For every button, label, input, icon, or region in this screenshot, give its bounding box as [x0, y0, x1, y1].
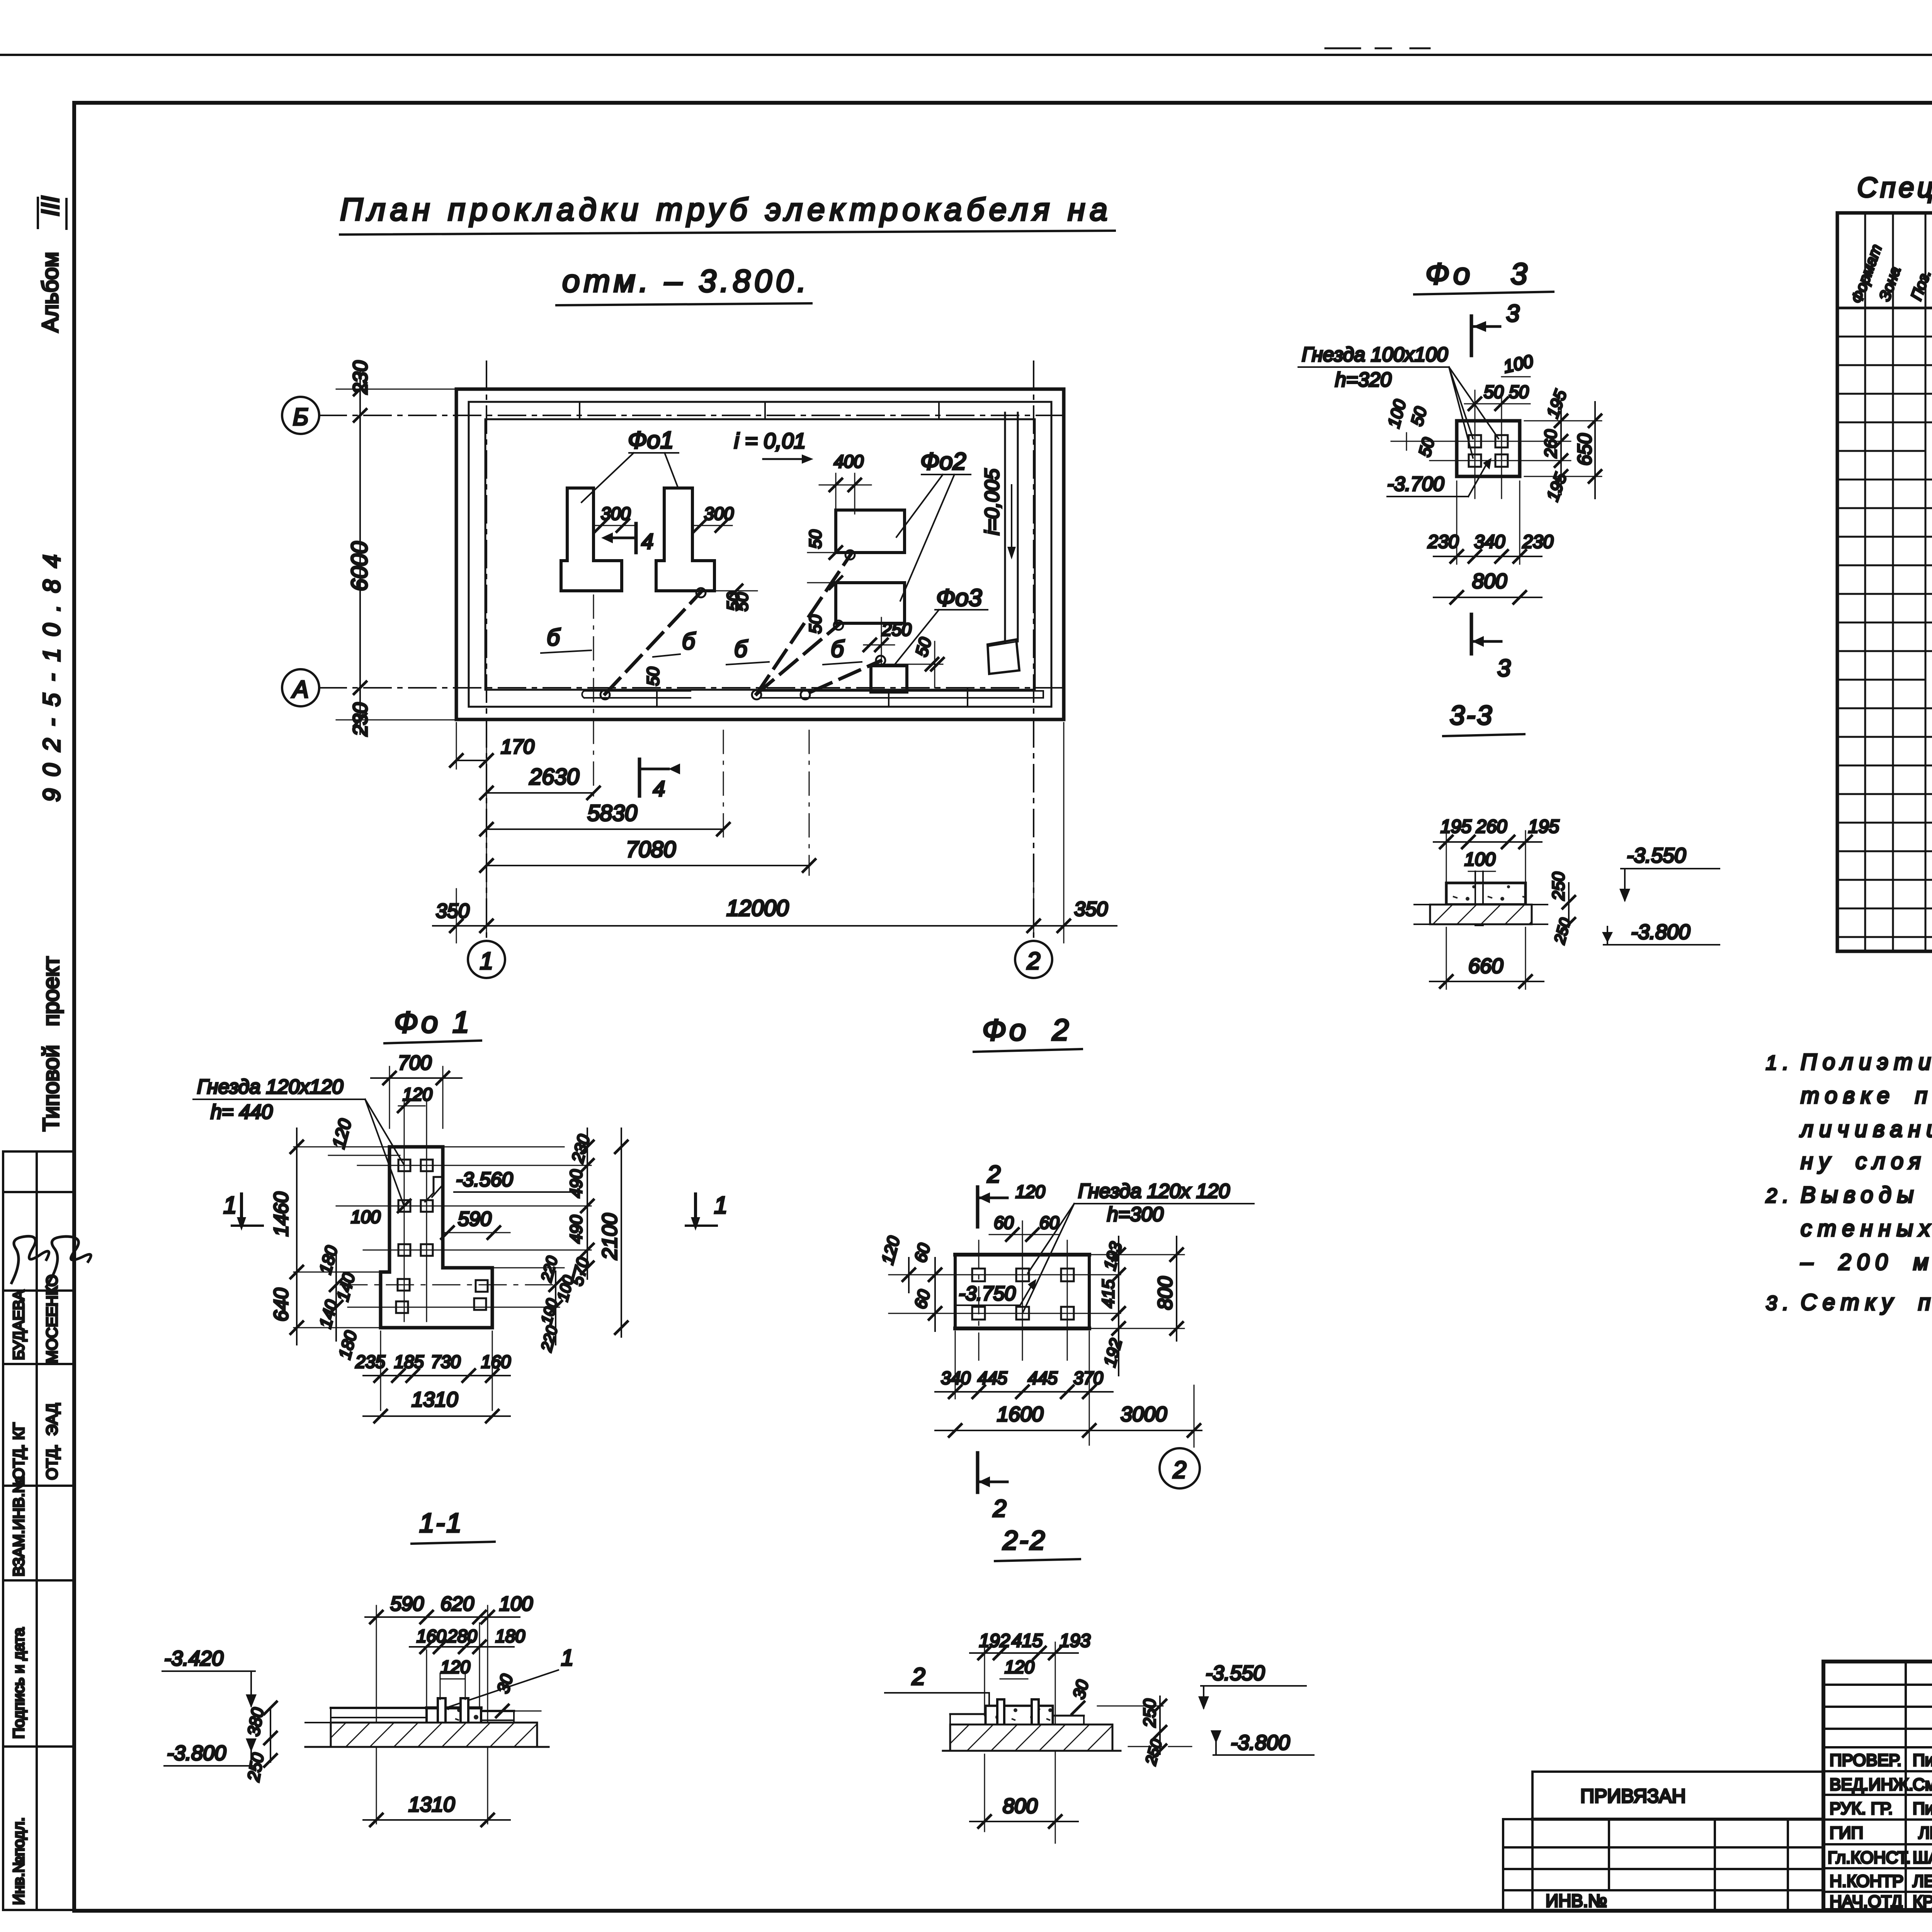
- svg-text:120: 120: [1015, 1182, 1045, 1202]
- svg-text:Сетку поз. 1 вырезать по: Сетку поз. 1 вырезать по месту.: [1801, 1290, 1932, 1315]
- svg-text:Альбом: Альбом: [38, 252, 63, 332]
- left stamp table: [3, 1151, 73, 1910]
- svg-text:195: 195: [1543, 470, 1570, 503]
- name rows: [1823, 1746, 1932, 1748]
- svg-text:б: б: [547, 624, 561, 650]
- svg-text:230: 230: [568, 1132, 594, 1165]
- svg-text:50: 50: [1407, 405, 1430, 428]
- dashed cable run 1: [605, 590, 702, 694]
- svg-text:590: 590: [458, 1208, 492, 1230]
- right floor line: [1053, 1715, 1084, 1717]
- svg-text:стенных стальных труб.: стенных стальных труб. Высота трубы над …: [1801, 1216, 1932, 1241]
- svg-text:ВЗАМ.ИНВ.№: ВЗАМ.ИНВ.№: [10, 1476, 27, 1577]
- svg-text:160: 160: [481, 1352, 511, 1372]
- svg-text:220: 220: [538, 1324, 561, 1354]
- Фо3 plan rectangle: [871, 666, 907, 692]
- svg-text:4: 4: [641, 529, 653, 553]
- svg-text:Фо 1: Фо 1: [394, 1005, 472, 1039]
- svg-text:340: 340: [941, 1368, 971, 1388]
- svg-text:230: 230: [1522, 532, 1553, 552]
- svg-text:б: б: [831, 636, 845, 662]
- svg-text:3-3: 3-3: [1450, 700, 1493, 730]
- dashed cable run 4: [811, 661, 881, 692]
- foundation block: [986, 1706, 1053, 1732]
- left floor line: [950, 1713, 986, 1715]
- svg-text:170: 170: [501, 736, 534, 758]
- svg-text:250: 250: [1140, 1699, 1159, 1728]
- left small dims 180 140 140 180: [335, 1252, 337, 1341]
- cable junction circles: [600, 690, 610, 699]
- svg-text:ОТД. ЭАД: ОТД. ЭАД: [44, 1403, 61, 1480]
- svg-text:-3.750: -3.750: [959, 1282, 1016, 1305]
- Фо3 plan square: [1457, 421, 1520, 476]
- svg-text:3000: 3000: [1121, 1403, 1167, 1426]
- svg-text:30: 30: [493, 1672, 517, 1695]
- svg-text:ОТД. КГ: ОТД. КГ: [10, 1423, 27, 1480]
- svg-text:ГИП: ГИП: [1830, 1823, 1863, 1842]
- svg-text:Смыслова: Смыслова: [1913, 1775, 1932, 1794]
- svg-text:Подпись и дата: Подпись и дата: [10, 1628, 27, 1739]
- svg-text:140: 140: [316, 1298, 341, 1330]
- socket squares 2x3: [972, 1269, 985, 1281]
- svg-text:230: 230: [349, 361, 372, 395]
- svg-text:1: 1: [714, 1192, 727, 1219]
- svg-text:h=300: h=300: [1107, 1203, 1163, 1226]
- dashed cable run 3: [757, 623, 840, 694]
- Фо2 plan lower rectangle: [836, 583, 905, 623]
- svg-text:2: 2: [993, 1495, 1006, 1522]
- svg-text:-3.800: -3.800: [1231, 1731, 1290, 1754]
- svg-text:2630: 2630: [529, 764, 579, 789]
- stamp signatures scribble: [12, 1236, 49, 1283]
- svg-text:-3.800: -3.800: [1631, 920, 1690, 944]
- svg-text:50: 50: [724, 592, 743, 611]
- dim 170: [456, 760, 486, 761]
- bottom dims 340 445 445 370: [955, 1331, 956, 1399]
- svg-text:415: 415: [1012, 1631, 1043, 1651]
- -3.560 notch mark: [434, 1177, 443, 1193]
- cable trench band along bottom wall left: [582, 691, 690, 698]
- overall 2100: [621, 1128, 622, 1337]
- svg-text:ну слоя над трубой 20мм.: ну слоя над трубой 20мм.: [1801, 1149, 1932, 1174]
- svg-text:220: 220: [538, 1254, 561, 1284]
- svg-text:Инв.№подл.: Инв.№подл.: [10, 1817, 27, 1905]
- svg-text:– 200 мм.: – 200 мм.: [1800, 1250, 1932, 1275]
- bottom dim 800: [984, 1754, 985, 1832]
- svg-text:50: 50: [1415, 435, 1438, 459]
- bottom dims 1600 3000: [935, 1430, 1202, 1431]
- bottom dims 235 185 730 160: [380, 1331, 381, 1410]
- right dim chain 195 260 195 650: [1524, 420, 1602, 422]
- axis А line: [319, 687, 1070, 689]
- axis circle 2: [1194, 1385, 1195, 1447]
- embedded channels: [997, 1699, 1004, 1742]
- svg-text:660: 660: [1468, 954, 1503, 978]
- svg-text:250: 250: [881, 619, 912, 639]
- svg-text:товке пола на глубину,: товке пола на глубину, обеспечивающую за…: [1801, 1083, 1932, 1108]
- svg-text:-3.420: -3.420: [164, 1647, 223, 1670]
- dim 2630: [486, 792, 594, 794]
- svg-text:Типовой проект: Типовой проект: [39, 956, 64, 1131]
- svg-text:Поз.: Поз.: [1908, 267, 1932, 303]
- hatched ground strip: [331, 1723, 537, 1747]
- svg-text:50: 50: [1484, 382, 1504, 402]
- svg-text:БУДАЕВА: БУДАЕВА: [10, 1290, 27, 1360]
- svg-text:ИНВ.№: ИНВ.№: [1546, 1891, 1607, 1911]
- svg-text:120: 120: [1005, 1657, 1034, 1677]
- svg-text:902-5-10.84: 902-5-10.84: [39, 554, 65, 802]
- svg-text:ПРОВЕР.: ПРОВЕР.: [1830, 1751, 1901, 1770]
- svg-text:1460: 1460: [270, 1192, 293, 1236]
- svg-text:260: 260: [1541, 429, 1560, 458]
- svg-text:КРАСАВИН: КРАСАВИН: [1913, 1892, 1932, 1911]
- svg-text:План прокладки труб электрок: План прокладки труб электрокабеля на: [340, 192, 1112, 227]
- svg-text:h= 440: h= 440: [211, 1101, 273, 1123]
- svg-text:60: 60: [911, 1241, 934, 1264]
- svg-text:2: 2: [1173, 1457, 1186, 1483]
- svg-text:2-2: 2-2: [1002, 1525, 1046, 1555]
- svg-text:ШАПИРО: ШАПИРО: [1913, 1848, 1932, 1867]
- Фо2 rectangle: [955, 1255, 1089, 1328]
- svg-text:А: А: [291, 676, 308, 703]
- svg-text:1: 1: [480, 948, 493, 975]
- svg-text:30: 30: [1069, 1678, 1092, 1701]
- svg-text:3.: 3.: [1766, 1292, 1794, 1315]
- dashed cable run 2: [757, 553, 852, 694]
- svg-text:60: 60: [911, 1287, 934, 1311]
- Фо2 plan upper rectangle: [836, 510, 905, 553]
- right floor slab: [481, 1710, 514, 1712]
- svg-text:h=320: h=320: [1335, 369, 1391, 391]
- dim 250 250 rotated: [1568, 883, 1570, 927]
- slope arrow down: [1011, 485, 1012, 547]
- section mark 2 top: [976, 1187, 980, 1227]
- axis circle 1: [468, 941, 505, 978]
- concrete block: [427, 1708, 481, 1738]
- svg-text:Н.КОНТР: Н.КОНТР: [1830, 1872, 1903, 1891]
- svg-text:140: 140: [333, 1270, 359, 1303]
- dim 700 top: [389, 1066, 390, 1128]
- right dim chain 193 415 192 800: [1092, 1254, 1184, 1255]
- svg-text:Гнезда 120х 120: Гнезда 120х 120: [1078, 1180, 1230, 1202]
- level line mid: [1097, 1706, 1163, 1707]
- svg-text:личивание труб бетонным: личивание труб бетонным раствором на тол…: [1799, 1117, 1932, 1142]
- svg-text:193: 193: [1060, 1631, 1090, 1651]
- svg-text:445: 445: [1028, 1368, 1058, 1388]
- svg-text:1: 1: [223, 1192, 236, 1219]
- svg-text:Фо3: Фо3: [936, 585, 982, 611]
- axis Б line: [319, 415, 1066, 416]
- svg-text:1.: 1.: [1766, 1052, 1794, 1074]
- svg-text:490: 490: [567, 1169, 586, 1198]
- svg-text:-3.550: -3.550: [1627, 844, 1686, 867]
- concrete fill: [986, 1706, 1053, 1732]
- left floor slab: [331, 1707, 427, 1709]
- svg-text:590: 590: [390, 1593, 424, 1615]
- socket squares column: [398, 1160, 410, 1171]
- svg-text:180: 180: [495, 1626, 525, 1646]
- svg-text:340: 340: [1474, 532, 1505, 552]
- small grid left of attached block: [1503, 1818, 1532, 1820]
- centerlines: [889, 1274, 1121, 1276]
- left margin vertical text: Альбом III: [36, 196, 64, 332]
- svg-text:4: 4: [653, 776, 665, 801]
- cable trench band along bottom wall right: [761, 691, 1043, 698]
- svg-text:6000: 6000: [347, 541, 372, 591]
- section 3-3 body: top block with sockets: [1446, 883, 1526, 905]
- svg-text:отм. – 3.800.: отм. – 3.800.: [562, 264, 810, 299]
- svg-text:ПРИВЯЗАН: ПРИВЯЗАН: [1580, 1785, 1686, 1807]
- svg-text:Спецификация монолитных фун: Спецификация монолитных фундаментов: [1857, 172, 1932, 203]
- Фо1 plan left column: [561, 488, 622, 591]
- svg-text:650: 650: [1574, 433, 1595, 466]
- svg-text:б: б: [682, 628, 696, 654]
- svg-text:Письман: Письман: [1913, 1799, 1932, 1818]
- axis circle 2: [1015, 941, 1052, 978]
- svg-text:300: 300: [704, 503, 734, 524]
- right dim chain 230 490 490 570 2100: [444, 1146, 564, 1148]
- svg-text:800: 800: [1472, 570, 1507, 593]
- svg-text:3: 3: [1497, 655, 1510, 682]
- svg-text:100: 100: [499, 1593, 533, 1615]
- axis circle Б: [282, 397, 319, 434]
- extension verticals above block: [426, 1650, 427, 1708]
- pit symbol right wall: [988, 639, 1019, 674]
- left attached block Привязан: [1532, 1772, 1823, 1910]
- bottom dimension chain: [456, 723, 457, 769]
- svg-text:ВЕД.ИНЖ.: ВЕД.ИНЖ.: [1830, 1775, 1913, 1794]
- plan inner wall rectangle: [485, 419, 1035, 690]
- embedded channels: [438, 1698, 446, 1742]
- svg-text:250: 250: [1142, 1737, 1165, 1767]
- plan outer wall rectangle: [456, 389, 1064, 719]
- svg-text:Гл.КОНСТ.: Гл.КОНСТ.: [1828, 1848, 1911, 1867]
- svg-text:193: 193: [1100, 1240, 1126, 1272]
- svg-text:Выводы труб из пола защити: Выводы труб из пола защитить отрезками т…: [1801, 1182, 1932, 1207]
- svg-text:100: 100: [1384, 397, 1410, 430]
- Фо1 plan right column: [656, 488, 714, 591]
- svg-text:-3.550: -3.550: [1206, 1662, 1265, 1685]
- svg-text:120: 120: [328, 1117, 355, 1151]
- centerlines through sockets: [1475, 390, 1476, 498]
- dim 380 250 left rotated: [270, 1708, 271, 1762]
- svg-text:i = 0,01: i = 0,01: [734, 429, 806, 453]
- svg-text:б: б: [734, 636, 748, 662]
- svg-text:Фо1: Фо1: [628, 427, 673, 454]
- svg-text:640: 640: [270, 1288, 293, 1321]
- svg-text:800: 800: [1003, 1794, 1037, 1818]
- axis circle А: [282, 669, 319, 706]
- svg-text:185: 185: [394, 1352, 424, 1372]
- svg-text:Фо 2: Фо 2: [982, 1013, 1072, 1047]
- svg-text:235: 235: [355, 1352, 385, 1372]
- svg-text:Б: Б: [293, 404, 308, 430]
- svg-text:250: 250: [1551, 916, 1574, 946]
- svg-text:ЛЕВИНА: ЛЕВИНА: [1918, 1823, 1932, 1842]
- hatched ground: [950, 1725, 1112, 1751]
- section mark 2 bottom: [976, 1453, 980, 1492]
- svg-text:280: 280: [447, 1626, 477, 1646]
- axis 1 line: [486, 361, 487, 940]
- svg-text:2: 2: [987, 1161, 1000, 1188]
- svg-text:-3.700: -3.700: [1387, 473, 1444, 495]
- section mark 3 top: [1470, 316, 1473, 355]
- svg-text:230: 230: [1427, 532, 1459, 552]
- dim 5830: [486, 828, 723, 830]
- bottom dim 230 340 230: [1456, 481, 1458, 564]
- svg-text:Фо2: Фо2: [920, 448, 966, 475]
- svg-text:МОСЕЕНКО: МОСЕЕНКО: [44, 1274, 61, 1363]
- svg-text:2: 2: [1027, 948, 1040, 975]
- small dims 220 100 100 220 right: [555, 1271, 556, 1345]
- title block texts left column: [1828, 1751, 1932, 1911]
- svg-text:1310: 1310: [412, 1388, 458, 1411]
- bottom dim 1310: [363, 1415, 510, 1417]
- top-left small grid: [1823, 1684, 1932, 1686]
- paper top edge line: [0, 54, 1932, 56]
- svg-text:100: 100: [351, 1207, 381, 1227]
- svg-text:800: 800: [1154, 1276, 1177, 1310]
- right wall vertical trench lines: [1004, 413, 1006, 642]
- svg-text:490: 490: [567, 1215, 586, 1243]
- svg-text:250: 250: [1549, 872, 1568, 901]
- svg-text:2.: 2.: [1765, 1185, 1794, 1207]
- svg-text:192: 192: [1100, 1337, 1126, 1369]
- svg-text:ЛЕВИНА: ЛЕВИНА: [1913, 1872, 1932, 1891]
- svg-text:5830: 5830: [587, 801, 637, 826]
- plan wall mid line rectangle: [469, 402, 1051, 707]
- left vertical dimension line: [359, 369, 361, 734]
- svg-text:195: 195: [1528, 816, 1559, 837]
- svg-text:250: 250: [244, 1751, 267, 1783]
- svg-text:2100: 2100: [598, 1213, 621, 1260]
- svg-text:1-1: 1-1: [419, 1508, 463, 1538]
- small registration dashes top center: [1325, 48, 1360, 49]
- axis 2 line: [1033, 361, 1034, 940]
- svg-text:Письман: Письман: [1913, 1751, 1932, 1770]
- svg-text:12000: 12000: [726, 896, 789, 921]
- svg-text:Зона: Зона: [1876, 264, 1904, 303]
- svg-text:730: 730: [431, 1352, 461, 1372]
- svg-text:120: 120: [440, 1657, 470, 1677]
- svg-text:РУК. ГР.: РУК. ГР.: [1830, 1799, 1893, 1818]
- svg-text:1: 1: [561, 1645, 573, 1670]
- svg-text:370: 370: [1073, 1368, 1103, 1388]
- socket squares: [1469, 435, 1481, 447]
- NOTES: [1765, 1049, 1932, 1315]
- svg-text:100: 100: [1502, 351, 1535, 377]
- bottom dim 800: [1434, 597, 1542, 598]
- dim 7080: [486, 865, 809, 866]
- TITLE BLOCK: [1823, 1662, 1932, 1910]
- svg-text:1600: 1600: [997, 1403, 1043, 1426]
- svg-text:50: 50: [644, 667, 663, 686]
- svg-text:Полиэтиленовые трубы ПЭ 1,5: Полиэтиленовые трубы ПЭ 1,5х3 заложить в…: [1801, 1049, 1932, 1075]
- hatched ground strip: [1430, 905, 1532, 924]
- svg-text:195: 195: [1440, 816, 1471, 837]
- svg-text:180: 180: [316, 1243, 341, 1276]
- svg-text:50: 50: [806, 530, 825, 549]
- svg-text:50: 50: [1509, 382, 1529, 402]
- svg-text:120: 120: [878, 1234, 903, 1266]
- svg-text:1310: 1310: [408, 1793, 455, 1816]
- svg-text:Гнезда 100х100: Гнезда 100х100: [1302, 344, 1448, 366]
- svg-text:60: 60: [994, 1213, 1014, 1233]
- bottom dim 1310: [363, 1819, 510, 1821]
- spec table frame: [1837, 213, 1932, 951]
- svg-text:III: III: [36, 196, 64, 216]
- svg-text:2: 2: [912, 1663, 925, 1690]
- svg-text:3: 3: [1506, 300, 1519, 327]
- svg-text:350: 350: [436, 900, 469, 922]
- svg-text:620: 620: [440, 1593, 474, 1615]
- dim 660 bottom: [1446, 927, 1447, 989]
- section mark 3 bottom: [1470, 614, 1473, 654]
- svg-text:380: 380: [244, 1706, 268, 1737]
- wall opening ticks bottom: [656, 690, 658, 707]
- svg-text:7080: 7080: [626, 837, 676, 862]
- svg-text:100: 100: [538, 1297, 561, 1326]
- section flag 4 lower: [638, 759, 641, 796]
- svg-text:445: 445: [978, 1368, 1007, 1388]
- stamp names vertical: [10, 1274, 61, 1905]
- dim 12000 with 350 ends: [433, 925, 1117, 927]
- svg-text:260: 260: [1476, 816, 1507, 837]
- dim 250 250 rotated: [1159, 1696, 1161, 1754]
- left dim chain 1460 640: [294, 1146, 391, 1148]
- Фо1 outline: [381, 1147, 492, 1328]
- svg-text:НАЧ.ОТД: НАЧ.ОТД: [1830, 1892, 1903, 1911]
- centerlines verticals: [404, 1101, 405, 1321]
- wall opening ticks top: [579, 402, 580, 419]
- verticals: [1905, 1662, 1907, 1910]
- svg-text:100: 100: [554, 1274, 577, 1303]
- svg-text:415: 415: [1099, 1279, 1118, 1308]
- svg-text:100: 100: [1464, 849, 1495, 870]
- centerlines horizontals: [357, 1165, 591, 1166]
- svg-text:Гнезда 120х120: Гнезда 120х120: [197, 1076, 343, 1098]
- svg-text:-3.800: -3.800: [167, 1742, 226, 1765]
- svg-text:i=0,005: i=0,005: [981, 468, 1003, 535]
- svg-text:700: 700: [398, 1052, 432, 1074]
- svg-text:Фо 3: Фо 3: [1425, 257, 1531, 291]
- embedded channels: [1475, 871, 1476, 925]
- svg-text:350: 350: [1074, 898, 1108, 920]
- svg-text:-3.560: -3.560: [456, 1168, 513, 1191]
- svg-text:230: 230: [349, 702, 372, 736]
- svg-text:400: 400: [834, 451, 864, 471]
- section flag 4 upper: [634, 524, 638, 553]
